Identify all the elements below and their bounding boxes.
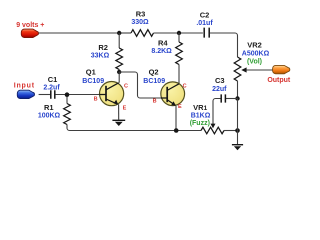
- wire: VR2 wiper to output connector: [247, 69, 273, 71]
- node E: junction dot R2/Q1 collector/Q2 base link: [117, 70, 121, 74]
- svg-text:330Ω: 330Ω: [131, 19, 149, 26]
- resistor R3 (330 ohm, horizontal in rail): [131, 30, 154, 37]
- wire: R4 to Q2 collector: [178, 65, 180, 84]
- wire: R2 to node E: [118, 70, 120, 73]
- svg-text:22uf: 22uf: [212, 86, 227, 93]
- node B: junction dot R3/R4/C2: [177, 31, 181, 35]
- wire: node A down to R2: [118, 33, 120, 48]
- svg-text:C1: C1: [48, 75, 58, 84]
- svg-text:E: E: [123, 106, 127, 112]
- svg-text:Q2: Q2: [149, 67, 159, 76]
- svg-text:E: E: [178, 104, 182, 110]
- node A: junction dot R2/R3/supply: [117, 31, 121, 35]
- capacitor C2 (.01uf) plates: [204, 28, 209, 38]
- wire: rail between node A and R3: [119, 32, 131, 34]
- svg-text:VR1: VR1: [193, 103, 207, 112]
- VR1 wiper arrow: [211, 124, 216, 129]
- svg-text:C3: C3: [215, 76, 225, 85]
- battery connector J1 "9 volts +": [21, 29, 38, 37]
- svg-text:C: C: [183, 83, 187, 89]
- wire: node C to node G: [237, 99, 239, 131]
- svg-text:R2: R2: [98, 43, 108, 52]
- svg-text:2.2uf: 2.2uf: [43, 85, 60, 92]
- wire: VR2 bottom to node C: [237, 81, 239, 99]
- svg-text:33KΩ: 33KΩ: [91, 53, 110, 60]
- svg-text:100KΩ: 100KΩ: [38, 113, 61, 120]
- svg-text:B: B: [94, 96, 98, 102]
- ground symbol under Q1 emitter: [112, 119, 125, 121]
- wire: Q2 emitter down to feedback rail: [175, 106, 177, 131]
- transistor Q2 (BC109) body: [161, 82, 185, 106]
- resistor R4 (8.2K): [176, 42, 183, 65]
- svg-text:8.2KΩ: 8.2KΩ: [151, 48, 172, 55]
- potentiometer VR2 (A500K volume) resistive element: [234, 57, 241, 81]
- capacitor C1 (2.2uf) plates: [51, 90, 55, 99]
- wire: coupling node E to Q2 base: [119, 72, 161, 98]
- wire: C2 to top-right corner, down to VR2: [210, 33, 238, 57]
- wire: C1 to node D to Q1 base: [55, 94, 99, 96]
- wire: C3 left, corner down to VR1 wiper: [213, 99, 221, 125]
- svg-text:B: B: [153, 98, 157, 104]
- svg-text:Input: Input: [14, 82, 35, 89]
- VR2 wiper arrow: [244, 69, 247, 71]
- resistor R1 (100K): [64, 104, 71, 125]
- capacitor C3 (22uf) plates: [221, 94, 225, 102]
- wire: node G down to ground: [237, 131, 239, 145]
- wire: VR1 right to node G: [224, 130, 238, 132]
- Q1 symbol: base bar, base/collector/emitter leads: [105, 86, 107, 101]
- input connector J2: [17, 90, 34, 98]
- svg-text:Output: Output: [267, 77, 291, 84]
- output connector J3: [273, 65, 290, 73]
- transistor Q1 (BC109) body: [100, 82, 124, 106]
- wire: node E down to Q1 collector: [118, 72, 120, 83]
- potentiometer VR1 (B1K fuzz) resistive element: [201, 127, 224, 134]
- wire: 9V supply rail left segment: [39, 32, 120, 34]
- node C: junction dot VR2/C3: [235, 96, 239, 100]
- svg-text:BC109: BC109: [143, 78, 165, 85]
- wire: node B down to R4: [178, 33, 180, 42]
- svg-text:B1KΩ: B1KΩ: [191, 112, 211, 119]
- svg-text:9 volts +: 9 volts +: [16, 22, 44, 29]
- svg-text:VR2: VR2: [247, 41, 262, 50]
- svg-text:.01uf: .01uf: [196, 20, 213, 27]
- wire: Q1 emitter to ground: [118, 104, 120, 119]
- svg-text:R3: R3: [136, 9, 146, 18]
- node F: junction dot Q2 emitter / rail: [174, 128, 179, 133]
- svg-text:(Vol): (Vol): [247, 58, 262, 65]
- svg-text:(Fuzz): (Fuzz): [190, 120, 210, 127]
- node G: junction dot VR1/ground branch: [235, 128, 240, 133]
- resistor R2 (33K): [116, 48, 123, 70]
- wire: R1 bottom corner to feedback rail: [67, 125, 201, 131]
- ground symbol bottom right: [232, 144, 243, 146]
- wire: rail from R3 to node B: [154, 32, 203, 34]
- svg-text:A500KΩ: A500KΩ: [242, 51, 270, 58]
- svg-text:R1: R1: [44, 103, 54, 112]
- svg-text:BC109: BC109: [82, 78, 104, 85]
- Q2 symbol: base bar, base/collector/emitter leads: [166, 87, 168, 102]
- svg-text:C2: C2: [200, 10, 210, 19]
- svg-text:Q1: Q1: [86, 67, 96, 76]
- wire: node D down to R1: [66, 97, 68, 104]
- wire: node C to C3: [226, 98, 238, 100]
- svg-text:C: C: [124, 84, 128, 90]
- node D: junction dot C1/R1/Q1 base: [65, 92, 70, 97]
- svg-text:R4: R4: [158, 38, 168, 47]
- wire: input to C1: [39, 94, 51, 96]
